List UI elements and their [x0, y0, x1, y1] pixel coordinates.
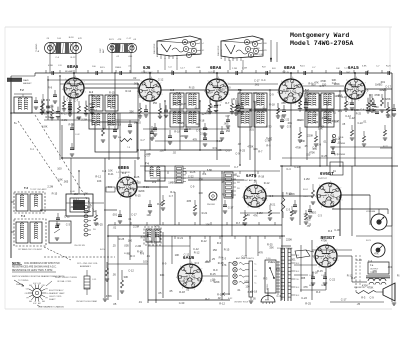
svg-text:1MEG: 1MEG [168, 181, 175, 185]
svg-text:100: 100 [314, 120, 319, 124]
svg-text:R-15: R-15 [189, 86, 195, 90]
svg-text:C-9: C-9 [293, 84, 298, 88]
svg-text:1MEG: 1MEG [70, 205, 77, 209]
svg-text:5: 5 [346, 80, 347, 82]
svg-text:2: 2 [194, 289, 195, 291]
svg-text:.01: .01 [306, 224, 310, 228]
svg-text:C-17: C-17 [73, 197, 79, 201]
svg-text:R-3: R-3 [263, 277, 268, 281]
svg-text:6.8K: 6.8K [57, 177, 63, 181]
svg-text:47K: 47K [78, 38, 82, 40]
svg-text:PHONO: PHONO [207, 204, 215, 206]
svg-text:7: 7 [340, 188, 341, 190]
svg-text:47K: 47K [259, 251, 264, 255]
svg-text:R-18: R-18 [286, 191, 292, 195]
svg-text:.005: .005 [197, 54, 201, 56]
svg-text:B-15: B-15 [100, 249, 105, 251]
svg-text:.01: .01 [262, 106, 266, 110]
svg-text:R-15: R-15 [135, 194, 141, 198]
svg-text:R-22: R-22 [383, 146, 389, 148]
svg-text:C-3: C-3 [226, 149, 231, 153]
svg-text:R-3: R-3 [46, 98, 51, 102]
svg-text:.001: .001 [380, 80, 386, 84]
svg-text:NEAREST LAMP: NEAREST LAMP [49, 292, 65, 295]
svg-text:NOTE:: NOTE: [12, 261, 21, 265]
svg-text:R-12: R-12 [126, 89, 132, 93]
svg-text:470K: 470K [367, 285, 373, 289]
svg-text:.005: .005 [186, 199, 192, 203]
svg-text:R-21: R-21 [157, 202, 163, 206]
svg-text:150: 150 [226, 129, 231, 133]
svg-text:C-4: C-4 [217, 103, 222, 107]
svg-text:6.8K: 6.8K [307, 91, 313, 95]
svg-text:10K: 10K [173, 101, 178, 105]
svg-text:1MEG: 1MEG [268, 260, 275, 264]
svg-text:R-9: R-9 [122, 171, 127, 175]
svg-text:.05: .05 [218, 148, 222, 152]
svg-text:7: 7 [265, 189, 266, 191]
svg-text:C-7: C-7 [71, 93, 76, 97]
svg-text:R-12: R-12 [95, 175, 101, 179]
svg-text:C-4: C-4 [263, 196, 268, 200]
svg-text:C-17: C-17 [127, 38, 133, 40]
svg-text:10K: 10K [318, 127, 323, 131]
svg-text:Model 74WG-2705A: Model 74WG-2705A [290, 40, 353, 47]
svg-text:R-21: R-21 [108, 172, 114, 176]
svg-text:R-25: R-25 [356, 113, 362, 116]
svg-text:ON NEXT HOLE REAR: ON NEXT HOLE REAR [76, 300, 98, 303]
svg-text:C-17: C-17 [228, 205, 234, 209]
svg-text:2: 2 [130, 198, 131, 200]
svg-text:.25: .25 [157, 85, 161, 89]
svg-text:2: 2 [330, 268, 331, 270]
svg-text:.01: .01 [128, 217, 132, 221]
svg-text:150: 150 [313, 113, 318, 117]
svg-text:1: 1 [85, 92, 86, 94]
svg-text:C-22: C-22 [66, 98, 72, 102]
svg-text:R-18: R-18 [137, 250, 143, 254]
svg-text:C-64: C-64 [309, 275, 313, 277]
svg-text:7: 7 [160, 83, 161, 85]
svg-text:1MEG: 1MEG [115, 67, 121, 69]
svg-text:2: 2 [259, 208, 260, 210]
svg-text:7: 7 [84, 82, 85, 84]
svg-text:150: 150 [306, 154, 311, 157]
svg-text:C-4: C-4 [202, 172, 207, 176]
svg-text:.05: .05 [113, 302, 117, 306]
svg-text:100: 100 [143, 260, 148, 264]
svg-text:150: 150 [178, 95, 183, 99]
svg-text:220K: 220K [286, 238, 292, 242]
svg-text:1MEG: 1MEG [379, 88, 386, 92]
svg-text:C-4: C-4 [360, 108, 365, 111]
svg-text:MAGNET: MAGNET [23, 82, 32, 85]
svg-text:C-1: C-1 [30, 148, 35, 151]
svg-text:C-4: C-4 [261, 78, 266, 82]
svg-text:.02: .02 [202, 50, 205, 52]
svg-text:C-4: C-4 [286, 167, 291, 171]
svg-text:.005: .005 [223, 122, 229, 126]
svg-text:RESISTANCES ARE SHOWN HAVE A D: RESISTANCES ARE SHOWN HAVE A D.C. [12, 266, 57, 269]
svg-text:47K: 47K [372, 269, 377, 273]
svg-text:R-9: R-9 [219, 256, 224, 260]
svg-text:C-22: C-22 [242, 255, 248, 259]
svg-text:R-25: R-25 [178, 121, 184, 125]
svg-text:C-24: C-24 [303, 196, 309, 198]
svg-text:R-25: R-25 [181, 102, 187, 106]
svg-text:R-25: R-25 [134, 175, 140, 179]
svg-text:R-12: R-12 [342, 96, 348, 99]
svg-text:R-21: R-21 [202, 211, 208, 215]
svg-text:.01: .01 [234, 173, 238, 177]
svg-text:C-3: C-3 [66, 222, 71, 226]
svg-text:C-30: C-30 [266, 125, 272, 129]
svg-text:.01: .01 [151, 135, 155, 139]
svg-text:C-17: C-17 [131, 213, 137, 217]
svg-text:R-7: R-7 [225, 101, 230, 105]
svg-text:5: 5 [317, 247, 318, 249]
svg-text:5: 5 [141, 81, 142, 83]
svg-text:R-7: R-7 [222, 192, 227, 196]
svg-text:R-25: R-25 [386, 66, 392, 68]
svg-text:OSC: OSC [100, 48, 102, 53]
svg-text:10K: 10K [327, 118, 332, 122]
svg-text:R-18: R-18 [259, 174, 265, 178]
svg-text:C-62: C-62 [321, 275, 325, 277]
svg-text:3: 3 [143, 100, 144, 102]
svg-text:100: 100 [198, 191, 203, 195]
svg-text:6+: 6+ [255, 270, 257, 272]
svg-text:R-15: R-15 [52, 191, 58, 195]
svg-text:O DB: O DB [338, 137, 344, 139]
svg-text:RESISTANCE OF LESS THAN .5 OHM: RESISTANCE OF LESS THAN .5 OHM [12, 269, 52, 272]
svg-text:RF AMP: RF AMP [65, 70, 74, 73]
svg-text:.001: .001 [287, 121, 293, 125]
svg-text:R-18: R-18 [115, 123, 121, 127]
svg-text:.001: .001 [249, 127, 255, 131]
svg-text:100: 100 [245, 285, 250, 289]
svg-text:5: 5 [281, 81, 282, 83]
svg-text:1MEG: 1MEG [335, 95, 342, 98]
svg-text:C-30: C-30 [334, 228, 340, 232]
svg-text:.02: .02 [211, 278, 215, 282]
svg-text:R1: R1 [255, 276, 257, 278]
svg-text:R-7: R-7 [108, 100, 113, 104]
svg-text:C-17: C-17 [385, 85, 391, 89]
svg-text:C-17: C-17 [253, 100, 259, 104]
svg-text:33K: 33K [160, 273, 165, 277]
svg-text:220K: 220K [307, 134, 313, 138]
svg-text:.05: .05 [112, 273, 116, 277]
svg-text:C-30: C-30 [298, 118, 304, 122]
svg-text:4: 4 [315, 196, 316, 198]
svg-text:DET: DET [346, 72, 351, 74]
svg-text:.001: .001 [337, 109, 343, 113]
svg-text:C-3: C-3 [102, 169, 107, 173]
svg-text:C-7: C-7 [141, 138, 146, 142]
svg-text:.05: .05 [221, 180, 225, 184]
svg-text:47K: 47K [314, 80, 319, 84]
svg-text:R-25: R-25 [239, 149, 245, 153]
svg-text:.02 MMF: .02 MMF [337, 154, 346, 156]
svg-text:T-1: T-1 [238, 89, 242, 92]
svg-text:6.8K: 6.8K [42, 125, 48, 129]
svg-text:R-12: R-12 [151, 241, 157, 245]
svg-text:5: 5 [319, 185, 320, 187]
svg-text:POWER TRANS: POWER TRANS [277, 247, 293, 250]
svg-text:470K: 470K [218, 78, 224, 82]
svg-text:33K: 33K [334, 120, 339, 123]
svg-text:R-21: R-21 [178, 236, 184, 240]
svg-text:1MEG: 1MEG [309, 210, 316, 214]
svg-text:.01: .01 [323, 140, 327, 144]
svg-text:R-18: R-18 [217, 292, 223, 296]
svg-text:7: 7 [365, 83, 366, 85]
svg-text:470K: 470K [321, 239, 327, 243]
svg-text:C-12: C-12 [91, 108, 97, 112]
svg-text:R-18: R-18 [251, 289, 257, 293]
svg-text:C-4: C-4 [277, 294, 282, 298]
svg-text:.01: .01 [237, 288, 241, 292]
svg-text:C-17: C-17 [254, 79, 260, 83]
svg-text:100: 100 [57, 167, 62, 171]
svg-text:3: 3 [120, 197, 121, 199]
svg-text:R-21: R-21 [283, 88, 289, 92]
svg-text:A-2: A-2 [170, 89, 175, 92]
svg-text:470K: 470K [374, 93, 380, 97]
svg-text:R-15: R-15 [300, 65, 306, 67]
svg-text:R-3: R-3 [205, 297, 210, 301]
svg-text:33K: 33K [124, 275, 129, 279]
svg-text:.05 MMF: .05 MMF [337, 143, 346, 145]
svg-text:ONE NEAREST CHASSIS: ONE NEAREST CHASSIS [38, 306, 64, 309]
svg-text:C-22: C-22 [294, 165, 300, 169]
svg-text:150: 150 [374, 105, 379, 109]
svg-text:470K: 470K [106, 294, 112, 298]
svg-text:R-3: R-3 [170, 190, 175, 194]
svg-text:R-18: R-18 [218, 261, 224, 265]
svg-text:C-4: C-4 [204, 127, 209, 131]
svg-text:R-3: R-3 [189, 272, 194, 276]
svg-text:ASSEMBLY: ASSEMBLY [220, 48, 223, 59]
svg-text:C-3: C-3 [368, 259, 373, 263]
svg-text:.01: .01 [363, 120, 367, 124]
svg-text:1: 1 [304, 95, 305, 97]
svg-text:R-15: R-15 [210, 272, 216, 276]
svg-text:.02: .02 [207, 108, 211, 112]
svg-text:.005: .005 [75, 116, 81, 120]
svg-text:100: 100 [244, 280, 249, 284]
svg-text:R-9: R-9 [48, 86, 53, 90]
svg-text:R-25: R-25 [119, 237, 125, 241]
svg-text:47K: 47K [374, 252, 379, 256]
svg-text:ELECTRICALLY: ELECTRICALLY [49, 289, 64, 292]
svg-text:R-3: R-3 [361, 296, 366, 300]
svg-text:1: 1 [338, 260, 339, 262]
svg-text:.05: .05 [252, 296, 256, 300]
svg-text:SHAFT: SHAFT [49, 298, 56, 301]
svg-text:.01: .01 [113, 225, 117, 229]
svg-text:R-25: R-25 [190, 170, 196, 174]
svg-text:.02: .02 [217, 296, 221, 300]
svg-text:6AL5: 6AL5 [348, 65, 359, 70]
svg-text:OUTPUT: OUTPUT [318, 178, 328, 180]
svg-text:R-12: R-12 [219, 301, 225, 305]
svg-text:150: 150 [153, 101, 158, 105]
svg-text:6AT6: 6AT6 [246, 173, 257, 178]
svg-text:220K: 220K [334, 82, 340, 86]
svg-text:R-12: R-12 [264, 181, 270, 185]
svg-text:470K: 470K [358, 93, 364, 97]
svg-text:ON NEXT HOLE: ON NEXT HOLE [234, 302, 249, 304]
svg-text:.01: .01 [332, 169, 336, 173]
svg-text:10K: 10K [175, 253, 180, 257]
svg-text:220K: 220K [385, 97, 391, 101]
svg-text:10K: 10K [146, 213, 151, 217]
svg-text:C-7: C-7 [226, 114, 231, 118]
svg-text:2ND IF: 2ND IF [282, 72, 290, 74]
svg-text:2.2M: 2.2M [135, 244, 141, 248]
svg-text:R-9: R-9 [213, 146, 218, 150]
svg-text:R-3: R-3 [217, 241, 222, 245]
svg-text:C-17: C-17 [341, 297, 347, 301]
svg-text:A-1: A-1 [89, 91, 94, 94]
svg-text:.05: .05 [158, 291, 162, 295]
svg-text:C-7: C-7 [234, 165, 239, 169]
svg-text:R-15: R-15 [100, 67, 106, 69]
svg-text:RIGHT DRUM 3 TURNS: RIGHT DRUM 3 TURNS [55, 277, 77, 279]
svg-text:470K: 470K [295, 145, 301, 149]
svg-text:3: 3 [182, 287, 183, 289]
svg-text:R-15: R-15 [224, 247, 230, 251]
svg-text:C-22: C-22 [301, 296, 307, 300]
svg-text:150: 150 [213, 248, 218, 252]
svg-text:6: 6 [151, 77, 152, 79]
svg-text:DIAL DRIVE: DIAL DRIVE [217, 45, 220, 56]
svg-text:.01: .01 [157, 178, 161, 182]
svg-text:.02: .02 [237, 142, 241, 146]
svg-text:6.8K: 6.8K [245, 213, 251, 217]
svg-text:R-9: R-9 [213, 268, 218, 272]
svg-text:10K: 10K [108, 168, 113, 172]
svg-text:C-4: C-4 [201, 43, 204, 45]
svg-text:1: 1 [366, 93, 367, 95]
svg-text:6: 6 [128, 175, 129, 177]
svg-text:ASSEMBLY: ASSEMBLY [156, 46, 159, 57]
svg-text:R-3: R-3 [195, 261, 200, 265]
svg-text:R-15: R-15 [317, 269, 323, 273]
svg-text:3: 3 [319, 266, 320, 268]
svg-text:WAVE: WAVE [23, 79, 29, 82]
svg-text:R-3: R-3 [316, 290, 321, 294]
svg-text:R-3: R-3 [328, 229, 333, 233]
svg-text:470K: 470K [350, 83, 356, 87]
svg-text:TUNING: TUNING [36, 43, 38, 52]
svg-text:6: 6 [330, 181, 331, 183]
svg-text:6.8K: 6.8K [362, 65, 367, 67]
svg-text:1: 1 [342, 199, 343, 201]
svg-text:6: 6 [356, 77, 357, 79]
svg-text:5: 5 [208, 81, 209, 83]
svg-text:6BA6: 6BA6 [210, 65, 222, 70]
svg-text:R-12: R-12 [194, 251, 200, 255]
svg-text:.05: .05 [169, 289, 173, 293]
svg-text:R-18: R-18 [269, 102, 275, 106]
svg-text:R-9: R-9 [162, 262, 167, 266]
svg-text:R-3: R-3 [131, 254, 136, 258]
svg-text:.001: .001 [291, 258, 297, 262]
svg-text:C-30: C-30 [219, 87, 225, 91]
svg-text:47K: 47K [247, 196, 252, 200]
svg-text:3: 3 [248, 206, 249, 208]
svg-text:150: 150 [282, 98, 287, 102]
svg-text:3: 3 [321, 206, 322, 208]
svg-text:R-18: R-18 [179, 290, 185, 294]
svg-text:R-25: R-25 [97, 223, 103, 227]
svg-text:C-12: C-12 [193, 247, 199, 251]
svg-text:4: 4 [62, 89, 63, 91]
svg-text:Montgomery Ward: Montgomery Ward [290, 32, 349, 39]
svg-text:ANT: ANT [102, 48, 105, 53]
svg-text:47K: 47K [285, 80, 290, 84]
svg-text:DIAL DRIVE: DIAL DRIVE [153, 43, 156, 54]
svg-text:470K: 470K [247, 145, 253, 149]
svg-text:CONV-OSC: CONV-OSC [141, 72, 153, 74]
svg-text:ASSEMBLY: ASSEMBLY [80, 265, 92, 268]
svg-text:C-12: C-12 [64, 215, 70, 219]
svg-text:C-9: C-9 [269, 93, 274, 97]
svg-text:ON-OFF SW: ON-OFF SW [74, 245, 85, 247]
svg-text:2: 2 [295, 104, 296, 106]
svg-text:.02: .02 [172, 150, 176, 154]
svg-text:C-3: C-3 [318, 214, 323, 218]
svg-text:150: 150 [386, 115, 391, 119]
svg-text:R-18: R-18 [95, 97, 101, 101]
svg-text:T-2: T-2 [20, 88, 24, 92]
svg-text:33K: 33K [269, 246, 274, 250]
svg-text:2.2M: 2.2M [183, 276, 189, 280]
svg-text:C-7: C-7 [74, 99, 79, 103]
svg-text:2.2M: 2.2M [242, 67, 247, 69]
svg-text:C-30: C-30 [179, 301, 185, 305]
svg-text:33K: 33K [195, 122, 200, 126]
svg-text:.005: .005 [63, 180, 69, 184]
svg-text:C-22: C-22 [284, 117, 290, 121]
svg-text:6: 6 [75, 76, 76, 78]
svg-text:100: 100 [207, 91, 212, 95]
svg-text:R-9: R-9 [266, 143, 271, 147]
svg-text:R-25: R-25 [305, 302, 311, 306]
svg-text:C-9: C-9 [235, 151, 240, 155]
svg-text:.01: .01 [43, 112, 47, 116]
svg-text:33K: 33K [129, 110, 134, 114]
svg-text:C-9: C-9 [312, 147, 317, 150]
svg-text:10K: 10K [97, 179, 102, 183]
svg-text:7: 7 [201, 269, 202, 271]
svg-text:100: 100 [159, 149, 164, 153]
svg-text:1: 1 [162, 94, 163, 96]
svg-text:R-9: R-9 [176, 91, 181, 95]
svg-text:470K: 470K [48, 65, 54, 67]
svg-text:4: 4 [176, 277, 177, 279]
svg-text:R-15: R-15 [61, 112, 67, 116]
svg-text:OF DIAL CORD: OF DIAL CORD [57, 280, 72, 283]
svg-text:VOLUME: VOLUME [366, 211, 376, 213]
svg-text:47K: 47K [130, 187, 135, 191]
svg-text:4: 4 [137, 91, 138, 93]
svg-text:TO TUNING: TO TUNING [18, 280, 29, 282]
svg-text:R-23: R-23 [366, 240, 372, 242]
